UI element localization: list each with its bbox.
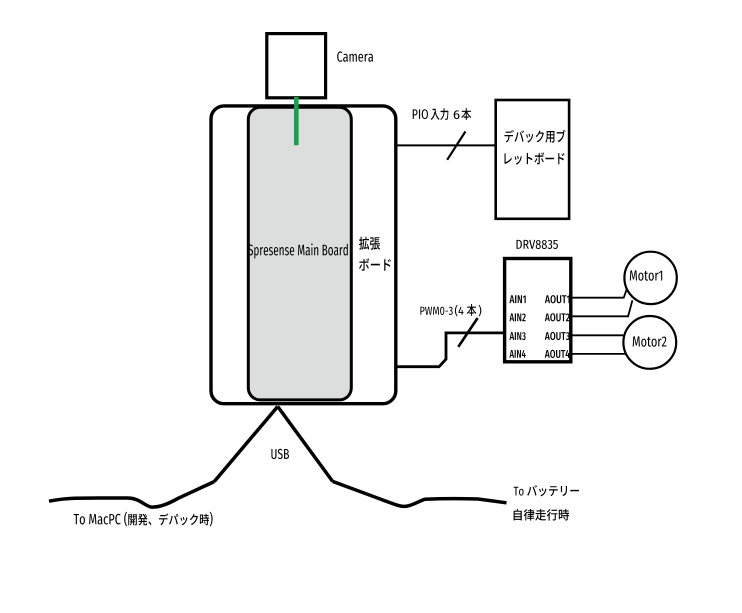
Spresense main board (gray)	[248, 107, 351, 400]
wire: AOUT4 to Motor2	[572, 353, 625, 355]
pin label: AOUT2	[545, 313, 570, 321]
wire: PWM bus (expansion board to DRV8835)	[398, 333, 505, 367]
label: Motor1	[630, 270, 662, 280]
wire: USB cable right branch	[278, 407, 333, 482]
wire: USB cable left branch	[214, 407, 278, 482]
pin label: AIN1	[509, 295, 525, 303]
wire: AOUT1 to Motor1	[572, 289, 627, 298]
wire: cable to MacPC	[49, 482, 214, 508]
label: ボード	[359, 258, 391, 270]
label: Camera	[337, 51, 373, 61]
PWM bus slash (4 lines)	[458, 318, 477, 347]
pin label: AOUT4	[545, 350, 570, 358]
motor driver DRV8835 box	[505, 259, 571, 362]
label: To MacPC (開発、デパック時)	[74, 512, 213, 527]
label: PWM0-3 (4 本)	[420, 307, 452, 315]
label: レットボード	[504, 152, 564, 164]
wire: cable to battery	[333, 481, 507, 506]
expansion board outer rounded box	[211, 106, 396, 404]
PIO bus slash (6 lines)	[447, 132, 465, 160]
label: PIO 入力 6 本	[413, 109, 428, 119]
label: デバック用ブ	[504, 130, 565, 143]
motor M2 circle	[623, 316, 676, 369]
pin label: AOUT1	[545, 295, 570, 303]
wire: PIO bus (expansion board to breadboard)	[398, 144, 496, 146]
pin label: AIN3	[509, 332, 525, 340]
debug breadboard box	[496, 100, 569, 219]
pin label: AOUT3	[545, 332, 570, 340]
camera flex cable (green)	[294, 97, 299, 145]
motor M1 circle	[624, 252, 676, 304]
label: Motor2	[633, 336, 667, 346]
wire: AOUT3 to Motor2	[572, 334, 623, 336]
wire: AOUT2 to Motor1	[572, 300, 632, 316]
label: 自律走行時	[514, 509, 570, 521]
camera module box	[267, 34, 326, 98]
pin label: AIN4	[509, 350, 525, 358]
label: 拡張	[359, 237, 380, 250]
pin label: AIN2	[509, 313, 525, 321]
label: To バッテリー	[514, 485, 579, 496]
label: DRV8835	[516, 240, 557, 249]
label: Spresense Main Board	[248, 243, 348, 258]
label: USB	[271, 449, 289, 459]
